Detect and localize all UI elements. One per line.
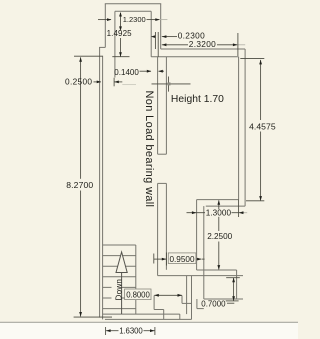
arrow 2.3200 left — [162, 43, 167, 46]
box 0.8000 — [125, 289, 151, 300]
wall corridor inner right upper — [150, 11, 152, 57]
dim 1.6300 line right — [144, 330, 155, 332]
stair arrow triangle — [116, 252, 127, 273]
arrow 2.2500 up — [217, 200, 220, 205]
dim 4.4575 extension bottom — [246, 200, 264, 202]
wall right room top outer — [161, 48, 245, 50]
height leader cross horizontal — [152, 83, 191, 85]
wall right room top inner — [151, 56, 238, 58]
dim 1.3000 line right — [232, 212, 244, 214]
dim 2.3200 extension right — [237, 33, 239, 56]
dim 0.2500 line — [94, 81, 101, 83]
dim 2.3200 tail — [238, 44, 245, 46]
dim 1.4925 line upper — [120, 13, 122, 29]
dim 0.9500 tail — [202, 258, 205, 260]
dim 8.2700 line upper — [80, 57, 82, 179]
wall outer top — [105, 3, 161, 5]
dim 0.1400 line — [140, 70, 152, 72]
wall corridor bottom outer — [105, 318, 192, 320]
wall step right — [203, 206, 205, 299]
arrow 2.2500 down — [217, 265, 220, 270]
dim 2.2500 line upper — [218, 200, 220, 209]
arrow 0.9500 left — [162, 258, 167, 261]
arrow 0.1400 right — [158, 70, 163, 73]
wall stub right — [191, 276, 193, 320]
svg-text:0.8000: 0.8000 — [126, 290, 150, 299]
svg-text:0.1400: 0.1400 — [114, 68, 139, 77]
wall right room right outer — [244, 49, 246, 206]
svg-text:Non Load bearing wall: Non Load bearing wall — [143, 91, 155, 208]
dim 8.2700 extension bottom — [74, 316, 112, 318]
wall door lower right — [165, 183, 167, 269]
svg-text:1.6300: 1.6300 — [119, 326, 143, 335]
arrow 0.2300 right — [162, 35, 167, 38]
stair tread 6 — [102, 297, 135, 299]
svg-text:0.9500: 0.9500 — [170, 255, 195, 264]
wall door upper right — [165, 57, 167, 154]
wall mini step b — [182, 302, 192, 304]
label Down background — [112, 278, 121, 302]
dim 4.4575 line lower — [260, 132, 262, 201]
box 0.9500 — [168, 253, 196, 264]
arrow 1.3000 right — [239, 211, 244, 214]
dim 4.4575 line upper — [260, 60, 262, 120]
wall outer left lower — [99, 47, 101, 317]
wall outer left upper — [104, 4, 106, 48]
svg-text:2.3200: 2.3200 — [189, 39, 216, 49]
stair tread 1 — [102, 244, 135, 246]
dim 0.9500 line right — [196, 258, 201, 260]
arrow 1.3000 left — [192, 211, 197, 214]
wall step right of stairs vertical — [153, 296, 155, 310]
wall right room bottom inner — [197, 199, 239, 201]
dim 0.2500 right arrow line — [115, 81, 123, 83]
wall bottom strip inner short — [197, 269, 237, 271]
svg-text:0.2500: 0.2500 — [65, 76, 92, 86]
wall step left — [196, 200, 198, 270]
wall inner top — [115, 10, 151, 12]
dim 1.4925 feature line — [112, 56, 129, 58]
dim 4.4575 extension top — [240, 58, 264, 60]
dim 1.2300 tail — [160, 19, 167, 21]
arrow 1.2300 right — [155, 18, 160, 21]
svg-text:1.4925: 1.4925 — [107, 29, 133, 38]
height leader cross vertical — [168, 77, 170, 92]
arrow 0.1400 left — [147, 70, 152, 73]
arrow 1.4925 up — [119, 12, 122, 17]
dim 1.2300 line left — [98, 19, 111, 21]
arrow 1.4925 down — [119, 52, 122, 57]
wall left inner lower — [102, 56, 104, 320]
dim 8.2700 extension top — [74, 55, 103, 57]
svg-text:Down: Down — [114, 279, 123, 301]
svg-text:0.7000: 0.7000 — [201, 300, 226, 309]
wall right room right inner — [238, 57, 240, 200]
dim 0.9500 tick left — [165, 253, 167, 266]
dim 1.6300 tick right — [154, 327, 156, 335]
dim 2.2500 line lower — [218, 242, 220, 270]
dim 2.3200 line left — [162, 44, 188, 46]
dim 0.8000 line — [154, 294, 182, 296]
wall door upper left — [157, 57, 159, 154]
dim 2.2500 line mid — [218, 217, 220, 231]
arrow 0.7000 down — [232, 296, 235, 301]
arrow 0.8000 right — [178, 294, 183, 297]
dim 1.2300 line right — [147, 19, 160, 21]
bottom viewport strip — [0, 323, 298, 339]
stair tread 4 — [102, 276, 135, 278]
wall corridor bottom inner — [102, 313, 179, 315]
arrow 2.3200 right — [233, 43, 238, 46]
arrow 8.2700 down — [79, 312, 82, 317]
height leader dot — [168, 82, 171, 85]
wall mini step a — [181, 296, 183, 304]
arrow 1.2300 left — [107, 18, 112, 21]
wall bottom strip top long — [158, 275, 243, 277]
arrow 0.9500 right — [197, 258, 202, 261]
dim 1.6300 line left — [106, 330, 118, 332]
dim 8.2700 line lower — [80, 191, 82, 317]
wall mini step c — [196, 299, 198, 309]
wall step right of stairs drop — [163, 310, 165, 320]
dim 2.3200 line right — [217, 44, 237, 46]
dim 1.3000 extension right — [238, 200, 240, 217]
wall right room bottom outer — [206, 205, 245, 207]
arrow 4.4575 down — [259, 196, 262, 201]
wall mini step d — [197, 308, 204, 310]
svg-text:4.4575: 4.4575 — [249, 122, 276, 132]
arrow 1.6300 right — [150, 329, 155, 332]
wall bottom right bottom — [204, 298, 243, 300]
dim 0.1400 tail — [159, 70, 165, 72]
arrow 0.8000 left — [154, 294, 159, 297]
dim 0.7000 leader — [227, 302, 234, 304]
stair tread 7 — [102, 308, 135, 310]
stair right edge — [135, 245, 137, 314]
wall corridor outer right upper — [160, 4, 162, 49]
dim 0.2500 faint tail — [122, 84, 136, 86]
wall bottom right vertical — [236, 270, 238, 299]
arrow 0.2500 left-pointing — [114, 81, 119, 84]
wall inner left upper — [114, 11, 116, 77]
arrow 8.2700 up — [79, 57, 82, 62]
dim 1.3000 tail — [244, 212, 247, 214]
arrow 0.2300 left — [151, 35, 156, 38]
wall door upper cap — [158, 153, 167, 155]
arrow 1.6300 left — [106, 329, 111, 332]
stair tread 5 — [102, 286, 135, 288]
wall stub left — [186, 276, 188, 315]
arrow 0.7000 up — [232, 278, 235, 283]
svg-text:Height 1.70: Height 1.70 — [171, 94, 224, 105]
stair arrow shaft — [121, 273, 123, 315]
wall left jog horizontal — [99, 46, 105, 48]
arrow 1.4925 mid down — [119, 26, 122, 31]
svg-text:1.3000: 1.3000 — [206, 209, 232, 218]
arrow 0.2500 right-pointing — [97, 81, 102, 84]
dim 1.4925 line lower — [120, 38, 122, 56]
svg-text:1.2300: 1.2300 — [123, 15, 146, 24]
arrow 4.4575 up — [259, 60, 262, 65]
bottom viewport divider line — [0, 321, 298, 323]
wall step right of stairs horizontal — [154, 309, 164, 311]
dim 0.9500 line left — [154, 258, 167, 260]
stair tread 2 — [102, 255, 135, 257]
dim 0.7000 tick bottom — [226, 300, 239, 302]
dim 0.7000 tick top — [226, 277, 240, 279]
wall door lower left — [157, 183, 159, 275]
dim 1.3000 line left — [187, 212, 206, 214]
dim 0.2300 extension a — [154, 32, 156, 49]
dim 0.7000 line — [233, 278, 235, 301]
wall bottom inner step up — [179, 314, 181, 319]
dim 0.9500 tick far left — [153, 254, 155, 264]
dim 0.2300 extension b — [157, 32, 159, 57]
stair tread 3 — [102, 265, 135, 267]
svg-text:8.2700: 8.2700 — [66, 180, 93, 190]
dim 1.6300 tick left — [105, 327, 107, 335]
dim 0.2300 line right — [162, 36, 177, 38]
wall door lower cap — [158, 182, 167, 184]
svg-text:2.2500: 2.2500 — [207, 232, 232, 241]
dim 0.2500 tick — [113, 78, 115, 87]
